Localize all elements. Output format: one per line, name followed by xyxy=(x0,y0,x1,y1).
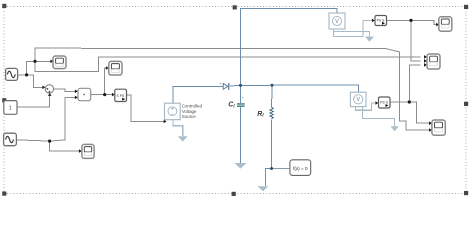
wire junction D up to Scope3 xyxy=(105,68,106,95)
solver configuration f(x)=0 xyxy=(290,160,311,176)
sine wave source 1 xyxy=(6,68,18,80)
selection handle top-center xyxy=(233,5,237,9)
wire bus line B to 3-input scope input 1 xyxy=(35,57,421,72)
3-input scope 6 xyxy=(427,54,440,69)
svg-text:PS S: PS S xyxy=(380,101,388,105)
wire PS2 converter to junction F then 2-input scope input 1 xyxy=(390,102,429,123)
node I resistor junction xyxy=(271,84,274,87)
scope 1 xyxy=(53,56,66,69)
scope 4 (bottom left) xyxy=(82,144,94,158)
wire capacitor bottom to ground xyxy=(240,107,242,163)
arrowhead into PS2 converter xyxy=(375,101,378,105)
wire diode cathode along top node to sensor2 xyxy=(230,85,359,92)
svg-text:Source: Source xyxy=(182,114,197,119)
selection handle bottom-center xyxy=(232,192,236,196)
node A xyxy=(25,73,28,76)
node E xyxy=(409,19,412,22)
svg-text:S PS: S PS xyxy=(117,94,125,98)
signal junction dots xyxy=(25,19,413,143)
voltage sensor 1 (top) xyxy=(329,13,345,29)
wire sine2 to junction C xyxy=(16,140,49,141)
ground arrow under PS2 area xyxy=(390,126,398,131)
capacitor C_l xyxy=(237,97,245,107)
selection handle top-right xyxy=(464,5,468,9)
selection handle left-middle xyxy=(2,98,6,102)
wire sum to product input 1 xyxy=(54,89,75,92)
selection handle right-middle xyxy=(464,102,468,106)
wire node to resistor top xyxy=(271,85,273,107)
ground arrow under CVS xyxy=(178,136,188,141)
arrowhead into 3-input scope input 1 xyxy=(424,55,427,59)
controlled voltage source CVS xyxy=(165,103,181,120)
selection handle bottom-left xyxy=(2,192,6,196)
selection handle top-left xyxy=(2,4,6,8)
svg-text:V: V xyxy=(356,97,360,103)
CVS label xyxy=(182,104,203,119)
arrowhead into 3-input scope input 2 xyxy=(424,59,427,63)
svg-text:Cl: Cl xyxy=(228,102,235,109)
arrowhead into 2-input scope input 1 xyxy=(429,121,432,125)
PS2 PS-Simulink converter (bottom right) xyxy=(379,97,391,108)
ground arrow under sensor1 xyxy=(365,37,374,42)
signal arrowheads black xyxy=(42,19,439,153)
svg-text:1: 1 xyxy=(9,105,12,111)
arrowhead into Scope3 xyxy=(106,66,109,70)
wire junction B to Scope1 xyxy=(35,60,51,62)
wire junction E down to 3-input scope input 2 xyxy=(411,20,421,61)
wire CVS top to diode anode xyxy=(173,86,223,103)
ground arrow under resistor xyxy=(258,186,269,191)
2-input scope 7 xyxy=(432,120,445,135)
arrowhead into sum bottom (up) xyxy=(48,93,52,96)
node C xyxy=(48,140,51,143)
node D xyxy=(103,93,106,96)
SPS Simulink-PS converter xyxy=(115,89,127,101)
arrowhead into Scope1 xyxy=(50,60,53,64)
svg-text:f(x) = 0: f(x) = 0 xyxy=(293,166,308,171)
sum block xyxy=(45,85,53,93)
arrowhead into product input 2 xyxy=(75,96,78,100)
arrowhead into 3-input scope input 3 xyxy=(424,63,427,67)
scope 3 (after product) xyxy=(109,61,122,75)
arrowhead into product input 1 xyxy=(75,90,78,94)
wire SPS converter down to CVS s-input xyxy=(127,95,164,121)
wire junction F up to 3-input scope input 3 xyxy=(409,65,420,102)
voltage sensor 2 (bottom right) xyxy=(350,92,366,106)
selection handle bottom-right xyxy=(464,191,468,195)
wire junction A up to junction B xyxy=(27,61,35,75)
selection dashed border xyxy=(4,6,466,193)
wire sensor1 output loop to PS1 xyxy=(334,20,373,36)
node H diode-capacitor junction xyxy=(239,84,242,87)
resistor R_l xyxy=(270,107,273,118)
arrowhead into PS1 converter xyxy=(372,19,375,23)
wire bus line A to bottom-right scope input 2 xyxy=(35,48,429,130)
wire CVS bottom to ground xyxy=(173,120,183,137)
diode D xyxy=(220,83,229,90)
PS1 PS-Simulink converter (top) xyxy=(375,16,387,26)
scope 5 (top right) xyxy=(439,17,452,31)
wire sine1 to junction A xyxy=(18,74,27,76)
svg-text:V: V xyxy=(335,19,339,25)
sine wave source 2 xyxy=(4,133,17,146)
product block xyxy=(78,88,91,100)
wire node G to ground xyxy=(265,169,271,187)
wire constant to sum bottom xyxy=(17,96,50,108)
arrowhead into Scope4 xyxy=(79,149,82,153)
svg-text:Rl: Rl xyxy=(257,111,264,118)
arrowhead into CVS s-input xyxy=(164,120,167,124)
wire sensor1 negative to ground xyxy=(334,29,370,37)
wire sensor2 output loop to PS2 xyxy=(355,103,375,110)
arrowhead into sum xyxy=(42,86,45,90)
wire junction C up to product input 2 xyxy=(50,97,75,141)
physical junction dots xyxy=(239,84,274,170)
wire top node up and across to sensor1 xyxy=(241,8,338,85)
wire node G to solver block xyxy=(272,168,290,170)
arrowhead into Scope5 xyxy=(436,23,439,27)
wire PS1 converter to junction E to Scope5 xyxy=(387,20,437,24)
node B xyxy=(33,60,36,63)
constant block "1" xyxy=(4,101,17,115)
arrowhead into SPS converter xyxy=(112,93,115,97)
wire sensor2 negative to ground xyxy=(363,107,395,127)
node G bottom junction xyxy=(270,167,273,170)
wire junction A to sum block xyxy=(27,75,43,87)
wire product to junction D to SPS converter xyxy=(91,94,112,96)
wire resistor bottom to node G xyxy=(271,120,273,169)
wire node to capacitor top xyxy=(240,85,242,103)
wire junction C to Scope4 xyxy=(50,141,79,151)
arrowhead into 2-input scope input 2 xyxy=(429,128,432,132)
svg-text:PS S: PS S xyxy=(377,19,385,23)
ground arrow under capacitor xyxy=(235,163,247,169)
node F xyxy=(408,100,411,103)
